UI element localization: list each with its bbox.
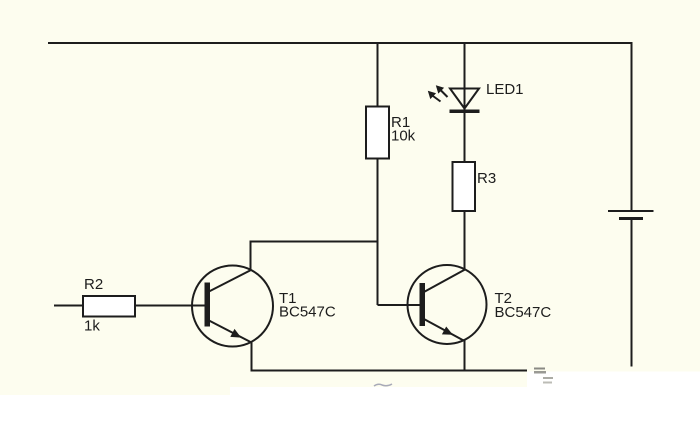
- svg-text:LED1: LED1: [486, 81, 524, 98]
- transistor T2 (NPN BC547C): [408, 265, 487, 344]
- wire: LED/R3 branch vertical from top rail: [464, 42, 466, 162]
- LED1 light emission arrow 1: [436, 85, 448, 97]
- svg-text:1k: 1k: [84, 318, 100, 335]
- svg-text:BC547C: BC547C: [495, 304, 552, 321]
- LED1 light emission arrow 2: [428, 91, 441, 102]
- wire: R1 branch vertical (top rail to T2 base node): [377, 42, 379, 305]
- wire: battery - terminal down: [631, 219, 633, 367]
- wire: T1 collector vertical: [250, 241, 252, 272]
- wire: input through R2 to T1 base: [54, 305, 205, 307]
- wire: top supply rail: [48, 42, 633, 44]
- wire: T2 emitter vertical down: [464, 340, 466, 371]
- svg-text:R3: R3: [477, 170, 496, 187]
- LED LED1 (diode triangle and cathode bar): [450, 89, 480, 114]
- battery cell: [608, 211, 654, 219]
- svg-text:10k: 10k: [391, 128, 416, 145]
- wire: T1 emitter vertical down: [251, 341, 253, 371]
- wire: T1 collector horizontal to R1 node: [251, 241, 379, 243]
- wire: T2 collector vertical up to R3: [464, 211, 466, 270]
- resistor R2: [83, 296, 135, 317]
- svg-text:BC547C: BC547C: [279, 303, 336, 320]
- transistor T1 (NPN BC547C): [192, 266, 273, 347]
- resistor R1: [366, 107, 389, 159]
- wire: right vertical from top rail to battery +: [631, 42, 633, 210]
- wire: node to T2 base: [378, 304, 421, 306]
- svg-text:R2: R2: [84, 276, 103, 293]
- resistor R3: [453, 162, 476, 211]
- wire: bottom rail: [251, 370, 528, 372]
- watermark remnant (grey bars): [374, 368, 553, 387]
